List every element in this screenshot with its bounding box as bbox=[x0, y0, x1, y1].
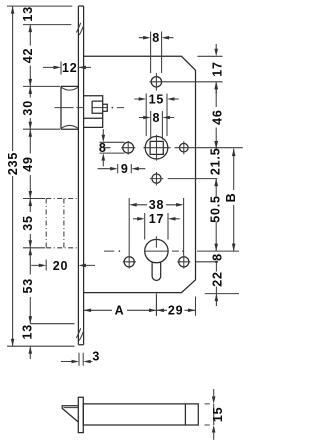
dimension 29 bbox=[157, 304, 196, 318]
svg-text:13: 13 bbox=[21, 6, 35, 22]
dimension 46 bbox=[210, 82, 224, 149]
follower hub U bbox=[143, 135, 170, 161]
dimension 15 follower bbox=[134, 92, 178, 136]
dimension 8 follower square bbox=[139, 111, 174, 140]
lock case outline bbox=[84, 56, 196, 292]
cylinder side hole right bbox=[177, 255, 218, 269]
svg-text:21.5: 21.5 bbox=[209, 148, 223, 176]
dimension 13 top bbox=[21, 6, 35, 22]
latchbolt block bbox=[61, 86, 78, 129]
svg-text:53: 53 bbox=[21, 278, 35, 294]
euro profile cylinder hole bbox=[145, 236, 168, 315]
dimension 21.5 bbox=[209, 141, 223, 186]
dimension A bbox=[84, 295, 196, 318]
side view latchbolt bevel bbox=[62, 406, 78, 422]
dimension 38 bbox=[129, 198, 183, 255]
dimension 17 right top bbox=[210, 44, 224, 94]
dimension 3 bbox=[61, 350, 100, 366]
left extension lines bbox=[7, 6, 75, 346]
svg-text:20: 20 bbox=[53, 259, 69, 273]
dimension 9 bbox=[98, 162, 146, 176]
faceplate break mark top bbox=[76, 23, 83, 35]
svg-text:50.5: 50.5 bbox=[209, 195, 223, 223]
dimension 235 bbox=[6, 6, 20, 346]
svg-text:12: 12 bbox=[62, 61, 78, 75]
dimension 35 bbox=[21, 199, 35, 248]
svg-text:15: 15 bbox=[149, 92, 165, 106]
svg-text:22: 22 bbox=[211, 271, 225, 287]
top hole centerline extension bbox=[149, 81, 222, 83]
svg-text:13: 13 bbox=[20, 324, 34, 340]
svg-text:35: 35 bbox=[21, 215, 35, 231]
svg-text:17: 17 bbox=[149, 212, 165, 226]
svg-text:8: 8 bbox=[210, 253, 224, 261]
cylinder centerline bbox=[104, 250, 239, 252]
side view case bbox=[83, 404, 198, 425]
dimension 8 left hole bbox=[99, 129, 125, 166]
dimension 13 bottom bbox=[20, 324, 34, 359]
dimension 15 side view bbox=[205, 389, 225, 440]
case bottom extension bbox=[205, 293, 239, 295]
latch housing bbox=[84, 96, 108, 128]
svg-text:30: 30 bbox=[21, 100, 35, 116]
dimension 12 bbox=[43, 61, 91, 75]
dimension B bbox=[224, 149, 238, 252]
cylinder side hole left bbox=[123, 255, 136, 269]
svg-text:8: 8 bbox=[153, 111, 161, 125]
dimension 49 bbox=[21, 129, 35, 198]
side view faceplate bbox=[78, 397, 83, 432]
svg-text:8: 8 bbox=[152, 31, 160, 45]
faceplate bbox=[78, 6, 83, 345]
svg-text:9: 9 bbox=[121, 162, 129, 176]
svg-text:235: 235 bbox=[6, 152, 20, 175]
svg-text:B: B bbox=[224, 193, 238, 203]
dimension 50.5 bbox=[209, 179, 223, 252]
svg-text:29: 29 bbox=[168, 304, 184, 318]
middle hole bbox=[150, 172, 218, 185]
right hole bbox=[180, 141, 189, 154]
svg-text:42: 42 bbox=[21, 48, 35, 64]
dimension 22 bbox=[211, 262, 225, 306]
case top extension bbox=[198, 55, 223, 57]
svg-text:49: 49 bbox=[21, 156, 35, 172]
dimension 53 bbox=[21, 248, 35, 324]
svg-text:8: 8 bbox=[99, 141, 107, 155]
deadbolt phantom (extended position) bbox=[46, 199, 78, 248]
dimension 30 bbox=[21, 86, 35, 129]
dimension 20 bbox=[31, 259, 95, 273]
dimension 8 right column bbox=[210, 253, 224, 263]
svg-text:3: 3 bbox=[92, 350, 100, 364]
dimension 8 top hole bbox=[139, 31, 174, 73]
svg-text:17: 17 bbox=[210, 61, 224, 77]
dimension 42 bbox=[21, 25, 35, 87]
faceplate break mark bottom bbox=[76, 328, 83, 340]
svg-text:A: A bbox=[115, 304, 125, 318]
svg-text:46: 46 bbox=[210, 109, 224, 125]
follower centerline extension right bbox=[175, 147, 243, 149]
dimension 17 cylinder bbox=[133, 212, 180, 239]
latch centerline bbox=[55, 107, 125, 109]
svg-text:15: 15 bbox=[211, 407, 225, 423]
left hole bbox=[105, 141, 136, 155]
svg-text:38: 38 bbox=[149, 198, 165, 212]
top fixing hole bbox=[151, 73, 161, 91]
